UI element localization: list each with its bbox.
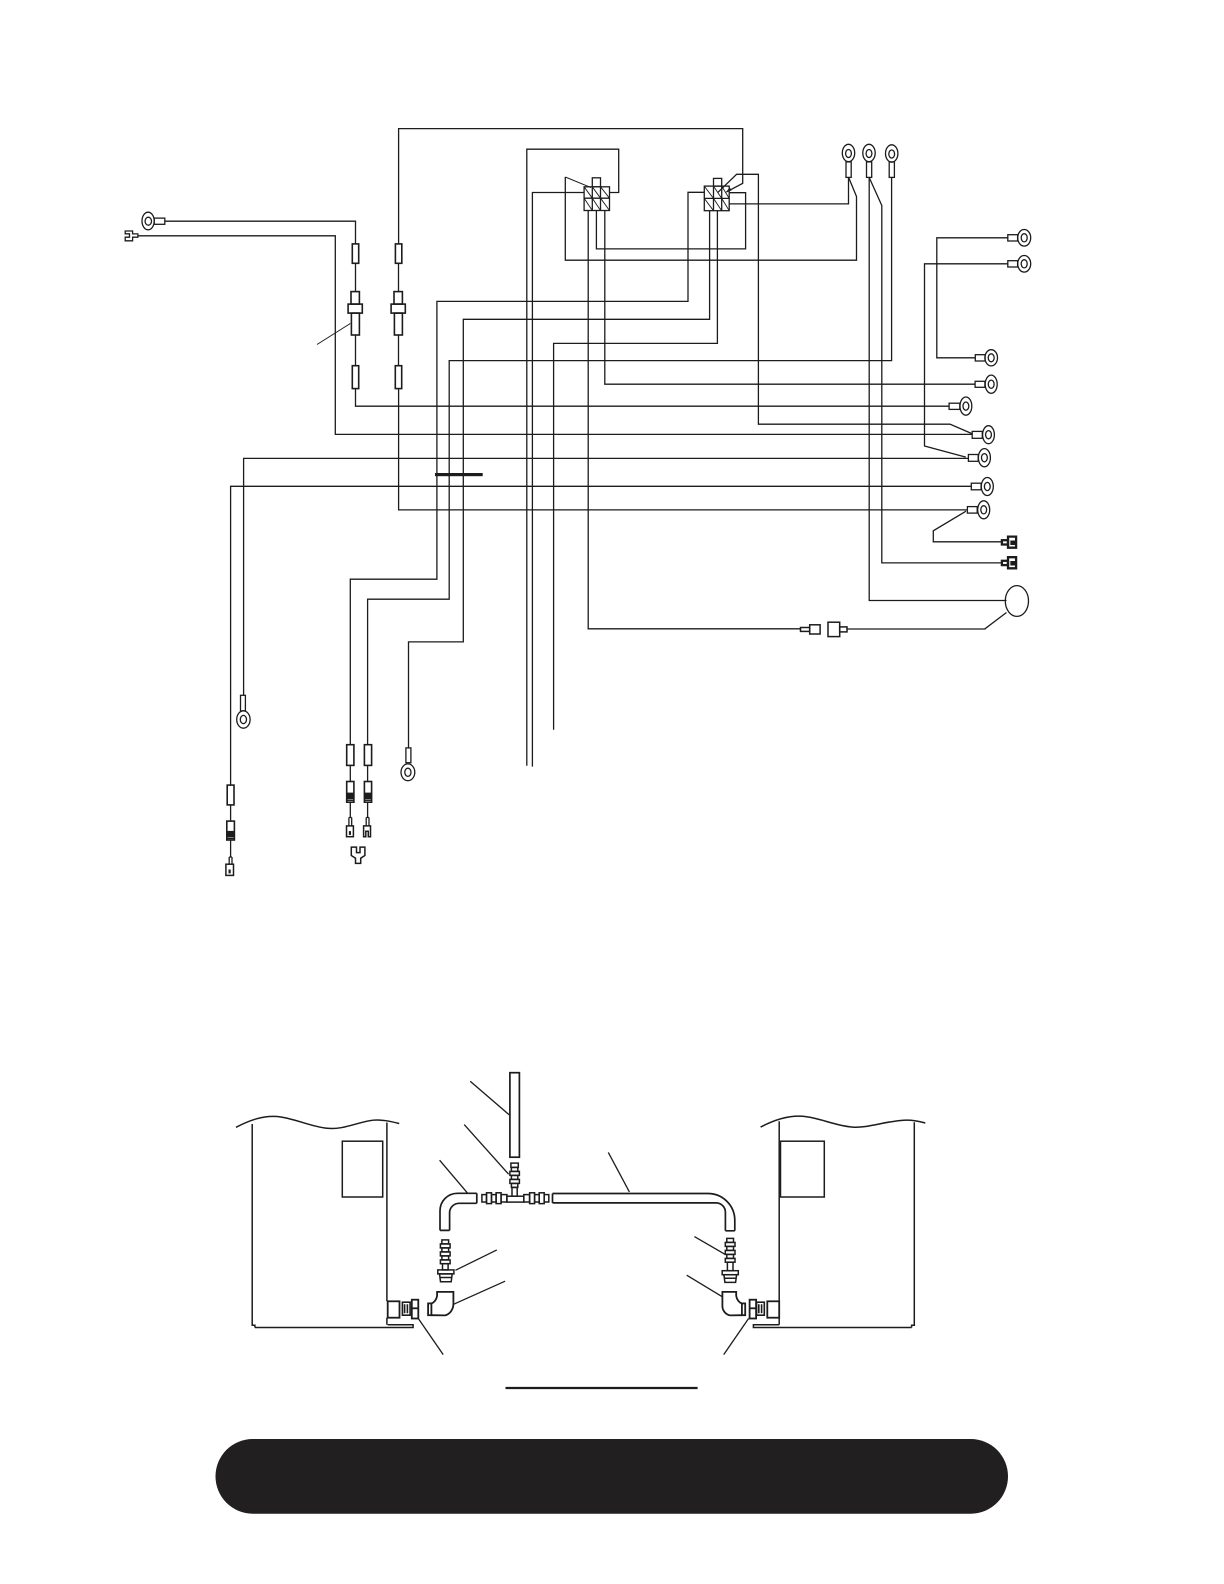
- ring terminal 1 (top): [842, 144, 854, 177]
- long hose: [553, 1194, 735, 1231]
- block1 pin3 wire to ring D: [605, 211, 975, 385]
- ring terminal C: [975, 350, 997, 366]
- fuse F1 left chain: [352, 244, 358, 263]
- wire bullet connector to ellipse: [847, 613, 1007, 630]
- wire left chain to ring E: [356, 389, 950, 407]
- leader to right barb: [694, 1237, 725, 1255]
- bullet connector male: [801, 625, 821, 634]
- wire ring-TL to left fuse chain: [165, 221, 356, 244]
- fuse on chain H: [227, 785, 234, 805]
- wire: [355, 335, 357, 366]
- right bulkhead fitting: [767, 1301, 779, 1317]
- leader to fuse holder: [317, 324, 350, 345]
- fuse holder right chain: [391, 292, 405, 335]
- left barbed fitting: [438, 1240, 454, 1282]
- ring terminal G: [968, 449, 990, 467]
- spade terminal bottom-left: [226, 864, 234, 875]
- ellipse terminal (bulb): [1005, 586, 1028, 617]
- wire ring B to ring G: [925, 264, 1008, 457]
- fuse F3 right chain: [395, 244, 401, 263]
- wire ring3 to chain B spade: [368, 177, 892, 744]
- wire: [349, 765, 351, 781]
- wire and stem: [229, 840, 232, 864]
- fuse F4 right chain: [395, 366, 401, 389]
- block2 pin2 wire (open end): [554, 211, 718, 730]
- wire ring A to ring C: [937, 238, 1008, 358]
- left elbow fitting: [428, 1292, 453, 1316]
- wire: [230, 805, 232, 821]
- right barbed fitting: [722, 1238, 738, 1282]
- right tank label plate: [781, 1141, 825, 1197]
- fuse on chain A: [347, 745, 354, 766]
- spade terminal top-left: [125, 231, 138, 241]
- tee left barbs: [482, 1193, 507, 1204]
- leader to left barb: [455, 1250, 496, 1270]
- block2 top-right leader wire to ring F: [718, 174, 972, 433]
- wire and stem chain A: [349, 802, 352, 825]
- wire ring G to bottom-left ring: [244, 458, 969, 695]
- ring terminal F: [972, 426, 994, 444]
- right elbow fitting: [722, 1292, 745, 1316]
- black rounded caption bar: [216, 1439, 1009, 1514]
- striped connector chain B: [364, 782, 371, 803]
- left tank body: [252, 1123, 413, 1328]
- wire: [367, 765, 369, 781]
- fuse on chain B: [364, 745, 371, 766]
- ring terminal A (right): [1008, 230, 1031, 247]
- ring terminal top-left: [142, 212, 165, 230]
- ring terminal D: [975, 375, 997, 393]
- ring terminal E: [949, 397, 972, 415]
- wire ring1 to block1 leader (long horizontal y260): [565, 177, 856, 260]
- left ridged connector: [402, 1302, 410, 1315]
- ring terminal bottom-left: [237, 695, 250, 728]
- stem and ring terminal bottom-middle: [401, 748, 415, 781]
- spade terminal K: [1002, 557, 1016, 568]
- left tank wavy top: [236, 1116, 399, 1128]
- spade terminal chain B: [364, 826, 371, 837]
- inner loop wire: block1 right stub: [527, 149, 619, 766]
- leader to tee barbs: [464, 1125, 508, 1175]
- ring terminal H: [971, 478, 993, 496]
- left bulkhead fitting: [388, 1301, 400, 1317]
- block1 pin1 wire to bullet connectors: [588, 211, 800, 629]
- left hose elbow: [440, 1193, 477, 1230]
- right tank body: [753, 1121, 914, 1327]
- leader to standpipe: [470, 1081, 509, 1115]
- wire ring H to bottom-left spade chain: [231, 486, 972, 785]
- wire and stem chain B: [366, 802, 369, 825]
- leader from right nut: [724, 1319, 749, 1355]
- block1 pin2 wire to block2: [596, 193, 745, 249]
- striped connector chain A: [347, 782, 354, 803]
- spade terminal chain A: [347, 826, 354, 837]
- left nut: [412, 1300, 419, 1319]
- wire: [355, 263, 357, 291]
- block2 left stub wire to chain A: [350, 192, 704, 744]
- thick splice bar: [435, 473, 483, 476]
- block2 connector: [704, 178, 729, 210]
- leader to left hose: [440, 1160, 468, 1193]
- leader to left elbow: [454, 1281, 505, 1304]
- arrowhead at block2: [726, 187, 732, 192]
- leader diagonal to block1: [565, 177, 591, 188]
- bullet connector female: [828, 622, 847, 636]
- wire right chain to ring I: [399, 389, 968, 510]
- leader to long hose: [608, 1152, 629, 1192]
- block1 left wire: [532, 193, 584, 767]
- wire spade K to ring2 diagonal: [869, 178, 1002, 563]
- block1 connector: [584, 178, 609, 211]
- fuse holder left chain: [348, 292, 362, 335]
- fuse F2 left chain: [352, 366, 358, 389]
- ring terminal 3 (top): [886, 145, 898, 178]
- big loop wire: right fuse chain top to block2 leader: [399, 129, 743, 244]
- tee body: [507, 1187, 524, 1202]
- wire: [398, 263, 400, 291]
- tee vertical barbs: [510, 1163, 520, 1187]
- striped connector chain H: [227, 821, 235, 840]
- wire ring2 to ellipse: [869, 177, 1006, 600]
- wire ring1 stem to block2 right stub: [729, 177, 848, 204]
- leader to right elbow: [687, 1275, 723, 1297]
- ring terminal B (right): [1008, 255, 1031, 272]
- wire ring I to spade J: [933, 511, 1002, 542]
- spade terminal J: [1002, 537, 1016, 548]
- tee right barbs: [524, 1193, 549, 1204]
- ring terminal I: [967, 501, 989, 519]
- right tank wavy top: [761, 1116, 926, 1127]
- caption underline: [506, 1387, 698, 1389]
- wire: [398, 335, 400, 366]
- ring terminal 2 (top): [863, 144, 875, 177]
- block2 pin1 wire to bottom ring: [409, 211, 710, 748]
- left tank label plate: [342, 1141, 382, 1197]
- standpipe: [510, 1073, 520, 1158]
- Y piggyback terminal: [351, 847, 365, 863]
- right ridged connector: [757, 1302, 765, 1315]
- wire spade-TL to ring F: [138, 236, 972, 435]
- leader from left nut: [418, 1319, 443, 1355]
- right nut: [750, 1300, 757, 1319]
